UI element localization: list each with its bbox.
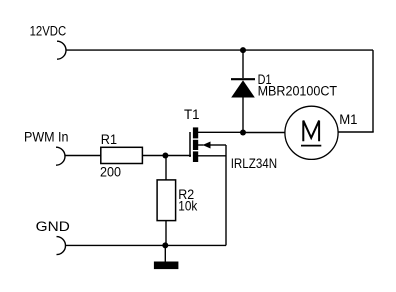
node junction R1/R2/gate xyxy=(162,153,168,159)
wire motor left xyxy=(243,132,285,134)
resistor R2 xyxy=(157,180,176,221)
svg-text:10k: 10k xyxy=(178,198,198,214)
svg-text:R1: R1 xyxy=(101,132,117,148)
wire 12V rail top xyxy=(66,49,373,51)
wire body arrow to source xyxy=(210,144,226,146)
wire node to R2 xyxy=(165,156,167,181)
wire ground rail xyxy=(66,244,227,246)
node junction ground xyxy=(162,242,168,248)
svg-text:T1: T1 xyxy=(184,107,200,123)
wire drain xyxy=(198,131,243,133)
wire right vertical xyxy=(372,50,374,132)
wire R2 to ground rail xyxy=(165,221,167,246)
wire D1 cathode up xyxy=(242,50,244,78)
wire source down xyxy=(225,145,227,245)
wire motor right xyxy=(338,131,374,133)
connector 12VDC xyxy=(57,41,66,59)
ground xyxy=(154,262,179,270)
wire D1 anode down xyxy=(242,97,244,133)
svg-text:200: 200 xyxy=(100,164,121,180)
motor M1 xyxy=(285,106,338,159)
svg-text:MBR20100CT: MBR20100CT xyxy=(258,83,338,99)
svg-text:IRLZ34N: IRLZ34N xyxy=(231,156,277,172)
connector GND xyxy=(57,237,66,255)
wire R1 to node xyxy=(142,155,165,157)
resistor R1 xyxy=(101,147,143,163)
node junction 12V/D1 xyxy=(240,47,246,53)
diode D1 xyxy=(231,79,255,97)
svg-text:GND: GND xyxy=(36,219,70,235)
connector PWM In xyxy=(56,147,65,165)
svg-text:PWM In: PWM In xyxy=(24,129,69,145)
node junction D1/drain/motor xyxy=(240,130,246,136)
svg-text:12VDC: 12VDC xyxy=(30,23,67,39)
transistor T1 MOSFET xyxy=(190,127,211,162)
wire source bar xyxy=(198,155,226,157)
wire ground stem xyxy=(164,245,166,261)
wire gate xyxy=(165,155,191,157)
wire PWM to R1 xyxy=(65,155,101,157)
svg-text:M1: M1 xyxy=(339,112,357,128)
